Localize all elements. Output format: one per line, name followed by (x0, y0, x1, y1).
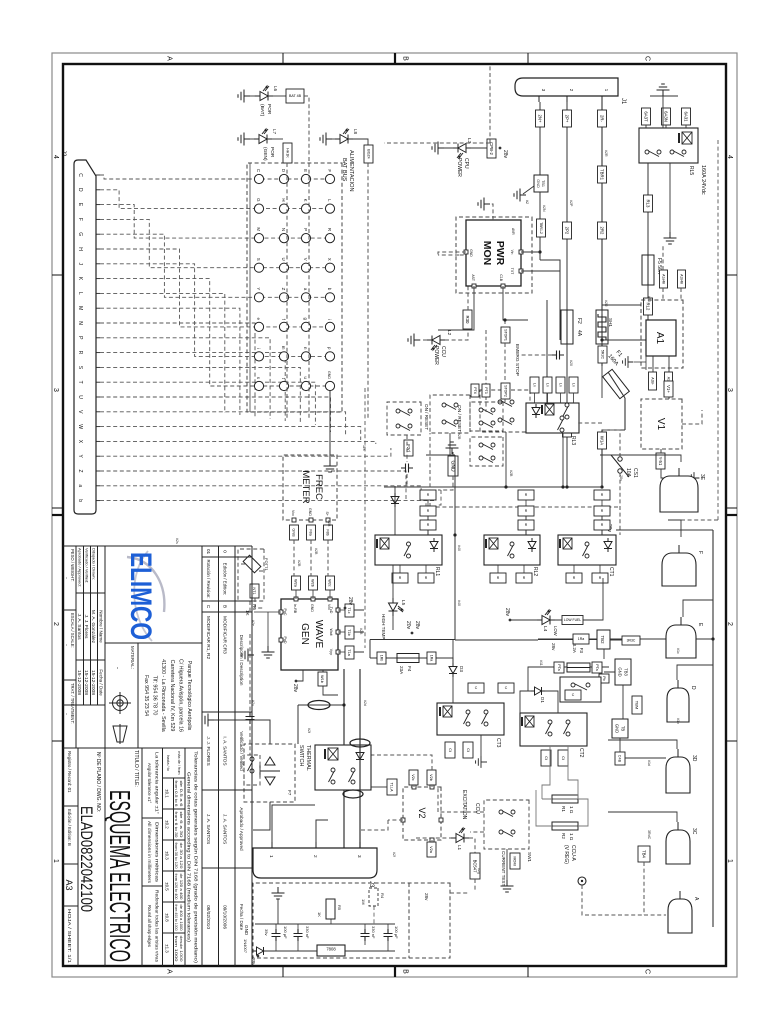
wire L1 up (469, 838, 475, 853)
svg-text:C: C (644, 969, 651, 974)
connector 3E pin (678, 468, 680, 476)
svg-text:U: U (77, 395, 83, 399)
capacitor 100uF b (384, 929, 393, 941)
svg-text:de 0.5 a 6: de 0.5 a 6 (179, 781, 183, 807)
relay CT1 box (558, 535, 616, 565)
svg-text:C4B: C4B (618, 755, 622, 763)
svg-text:GEN: GEN (299, 623, 310, 645)
svg-text:Ct: Ct (561, 756, 565, 760)
wire CT1 left (601, 500, 603, 535)
ground emerg (446, 442, 459, 454)
svg-text:#40: #40 (457, 545, 461, 551)
wire WG left stubs (296, 590, 330, 599)
relay CT3 contact2 (464, 710, 471, 726)
terminal V (301, 263, 310, 272)
svg-text:GND: GND (536, 179, 540, 188)
wire V2 to power (360, 820, 388, 830)
wire shell 3E feed (600, 455, 681, 462)
diode RL4 (356, 749, 364, 763)
wire SW1 down (470, 831, 484, 833)
wire TB3 link (604, 649, 615, 672)
module V2 pin (430, 785, 434, 789)
svg-text:#2t: #2t (307, 728, 311, 733)
wire J2 pin N bundle (100, 323, 255, 417)
connector J2 pin W (96, 426, 100, 428)
svg-text:Tlf: 954 36 78 70: Tlf: 954 36 78 70 (152, 676, 158, 716)
svg-text:2: 2 (52, 622, 59, 626)
svg-text:ELIMCO: ELIMCO (124, 552, 157, 640)
resistor box RL2 right (490, 573, 506, 583)
svg-text:hasta / to: hasta / to (166, 755, 170, 771)
svg-text:V2: V2 (417, 807, 427, 818)
LED L3 (453, 144, 471, 159)
wire J2 pin Z bundle (100, 471, 406, 500)
relay RL3 contact 2 (558, 416, 565, 432)
wire J2 pin U bundle (100, 397, 331, 432)
terminal block ALIMENTACION BAT BUS box (247, 163, 342, 412)
wire shell 3D feed (608, 740, 677, 749)
connector J2 pin R (96, 352, 100, 354)
contact CN1 (442, 403, 458, 410)
svg-text:S+: S+ (325, 512, 329, 517)
label box A1a48 (660, 270, 668, 288)
svg-text:3RdC: 3RdC (647, 830, 651, 840)
terminal C (254, 174, 263, 183)
resistor box RL1 right (418, 573, 434, 583)
label box Y-51 (656, 453, 665, 469)
svg-text:i: i (256, 348, 261, 349)
ground V1 (689, 472, 700, 484)
svg-text:RL2: RL2 (645, 303, 650, 311)
svg-text:E: E (303, 169, 308, 172)
terminal Y (254, 293, 263, 302)
svg-text:from 6 to 30: from 6 to 30 (174, 812, 178, 838)
svg-text:28v: 28v (619, 475, 623, 481)
label box V2c (409, 770, 418, 785)
wire F3 in (602, 640, 622, 667)
LED L8 (335, 129, 353, 144)
label box R30 (463, 310, 472, 329)
switch group CN2 dashed box (387, 402, 421, 435)
wire RL1 right (399, 565, 401, 573)
breaker CS1 (611, 455, 629, 477)
label box STOP2 (501, 383, 510, 399)
label box T1b (345, 626, 354, 639)
connector 3D pin (677, 749, 679, 757)
terminal n (301, 352, 310, 361)
svg-text:G: G (256, 198, 261, 202)
svg-text:RL3: RL3 (645, 200, 650, 208)
wire RL2 left (525, 500, 527, 535)
svg-text:#2g: #2g (477, 868, 481, 874)
svg-text:1M: 1M (361, 899, 366, 905)
label box CPB-2 (487, 139, 496, 158)
wire drop x639 (610, 638, 713, 640)
svg-text:H: H (281, 198, 286, 201)
svg-text:TBR1: TBR1 (599, 169, 604, 181)
junction (538, 250, 541, 253)
wire L6 dashed2 (308, 163, 310, 420)
svg-text:Vin: Vin (510, 250, 514, 255)
wire bundle to relay 2 (426, 490, 437, 512)
wire L5 (392, 565, 394, 598)
resistor box CT right (541, 750, 551, 766)
switch group contacts A dashed box (470, 402, 503, 431)
svg-text:-: - (114, 667, 120, 669)
ground CT3 (476, 756, 487, 768)
wire cap emerg (518, 354, 552, 356)
LED L5 (389, 598, 404, 616)
wire J2 pin b bundle (100, 499, 436, 502)
label box MOM (510, 853, 520, 869)
wire L1 to PSU (474, 879, 476, 891)
svg-text:1N4007: 1N4007 (243, 939, 248, 954)
label box 2P2 (563, 222, 572, 239)
svg-text:LOW FUEL: LOW FUEL (564, 618, 581, 622)
wire shell D feed (677, 665, 713, 680)
wire dashed v3 (438, 254, 459, 256)
wire J2 pin P bundle (100, 338, 270, 419)
connector 3E shell (660, 476, 698, 512)
svg-text:Descripción / Description: Descripción / Description (239, 635, 244, 686)
relay RL3 box (526, 403, 579, 433)
relay RL2 contact (508, 542, 515, 558)
terminal L (325, 204, 334, 213)
wire lbox-RL5 (645, 125, 647, 128)
svg-text:PWR: PWR (494, 241, 506, 266)
sensor dashed box (244, 755, 260, 785)
svg-text:1: 1 (269, 855, 274, 858)
label box 2R2 (598, 222, 607, 239)
wire RL3 out (562, 433, 564, 487)
svg-text:Tolerancias de cotas generales: Tolerancias de cotas generales según DIN… (194, 751, 199, 964)
module WAVE GEN pin PgC (279, 610, 283, 614)
shunt SH1 (598, 314, 606, 340)
label box NT1 (250, 584, 259, 598)
svg-text:Aprobado / Approved: Aprobado / Approved (239, 807, 244, 851)
label box T1c (345, 604, 354, 617)
wire CN out (426, 433, 455, 455)
label box BAT 4B (286, 89, 304, 103)
svg-text:La tolerancia angular ±1°: La tolerancia angular ±1° (155, 752, 160, 814)
svg-text:BAT 4B: BAT 4B (289, 94, 302, 98)
connector J2 pin L (96, 292, 100, 294)
ground thermal (202, 714, 214, 727)
capacitor emerg (552, 351, 564, 360)
wire emerg chain2 (485, 330, 487, 412)
svg-text:W1A: W1A (599, 436, 604, 445)
svg-text:2P+: 2P+ (564, 115, 569, 123)
module WAVE GEN pin In-RB (294, 597, 298, 601)
svg-text:TBR1-2: TBR1-2 (539, 222, 543, 234)
svg-text:3: 3 (52, 388, 59, 392)
svg-text:RL3: RL3 (570, 436, 576, 445)
wire L7 b (272, 138, 283, 140)
svg-text:Z: Z (281, 288, 286, 291)
svg-text:Edición / Edition:: Edición / Edition: (223, 563, 228, 596)
svg-text:28v: 28v (347, 597, 353, 606)
wire A1 to V1 (668, 390, 670, 399)
terminal N (279, 234, 288, 243)
wire J2 pin R bundle (100, 353, 285, 421)
terminal K (301, 204, 310, 213)
module PWR MON pin GND (464, 250, 468, 254)
wire PSU rail A (255, 923, 395, 925)
svg-text:5R2C: 5R2C (600, 350, 604, 360)
junction (503, 318, 506, 321)
label box 1Ra (427, 652, 436, 664)
wire PWRMON top pin2 (521, 271, 560, 340)
svg-text:m: m (281, 346, 286, 350)
wire J1 pin1 bus (601, 102, 603, 310)
svg-text:CPU: CPU (463, 158, 469, 169)
svg-text:CURRENT TEST: CURRENT TEST (501, 851, 506, 887)
wire R1R2 top grey (578, 799, 588, 826)
wire J2 pin H bundle (100, 249, 334, 327)
wire TB1 out (539, 192, 541, 219)
label box 2R- (598, 110, 607, 127)
svg-text:de 30 a 120: de 30 a 120 (179, 843, 183, 869)
module PWR MON dashed box (456, 217, 532, 293)
svg-text:TB4: TB4 (642, 850, 647, 858)
wire PWRMON right1 (503, 286, 528, 320)
module WAVE GEN pin Vcc (328, 597, 332, 601)
wire grid internal (249, 163, 251, 412)
svg-text:M: M (77, 306, 83, 310)
svg-text:100 µF: 100 µF (394, 926, 399, 939)
CT coil T2 (350, 739, 370, 747)
module V1 dashed box (641, 399, 682, 449)
label box W1b (318, 672, 327, 686)
svg-text:PTa: PTa (557, 664, 561, 670)
ground SW1 (501, 880, 514, 892)
svg-text:Pb: Pb (602, 676, 606, 680)
diode CT1 (604, 538, 612, 552)
label box 3R3C (622, 636, 640, 645)
LED L1 (451, 828, 469, 843)
wire V2 stubs (414, 785, 432, 842)
wire CS1 right (619, 473, 621, 535)
junction (711, 637, 714, 640)
svg-text:T1a: T1a (347, 649, 351, 656)
wire shell 3C feed (608, 812, 677, 822)
wire L7 dashed (286, 163, 288, 420)
svg-text:35v: 35v (264, 929, 269, 935)
svg-text:23A: 23A (399, 666, 404, 675)
wire to RL3 (546, 300, 548, 403)
LED L6 (255, 86, 273, 101)
wire A1a48 link (662, 288, 664, 300)
switch group ON/RESET dashed box (480, 390, 530, 432)
svg-text:Ct: Ct (448, 748, 452, 752)
wire J2 pin G bundle (100, 234, 334, 297)
svg-text:4: 4 (726, 155, 733, 159)
svg-text:from 1000: from 1000 (174, 936, 178, 962)
svg-text:V2c: V2c (411, 774, 415, 781)
relay CT2 coil (522, 716, 534, 727)
label box TBR1-2 (537, 219, 546, 237)
svg-text:3E: 3E (699, 474, 705, 481)
svg-text:#2N: #2N (542, 205, 546, 212)
label box TB4 (638, 846, 650, 862)
svg-text:In-RB: In-RB (293, 604, 297, 614)
svg-text:±0.5: ±0.5 (165, 882, 170, 891)
svg-text:Ln: Ln (571, 383, 575, 387)
svg-text:1K: 1K (317, 912, 322, 917)
svg-text:D: D (77, 188, 83, 192)
switch group CN dashed box (430, 395, 470, 433)
module FREC METER pin GND (309, 518, 313, 522)
contact CN3 (396, 409, 412, 416)
label box RL3 feed (530, 377, 539, 393)
label box GND (448, 456, 458, 476)
module PWR MON pin C1B (501, 284, 505, 288)
svg-text:28v: 28v (504, 608, 510, 617)
module PWR MON box (466, 220, 521, 286)
resistor box RL1 right (392, 573, 408, 583)
diode RL2 (528, 538, 536, 552)
relay RL1 box (375, 535, 442, 565)
wire CT3 gnd (481, 735, 487, 762)
relay RL3 contact (563, 403, 570, 419)
svg-text:METER: METER (300, 470, 311, 503)
svg-text:#2P: #2P (569, 200, 573, 207)
svg-text:1 Ω: 1 Ω (569, 833, 574, 841)
svg-text:Verificado / Verified: Verificado / Verified (239, 731, 244, 771)
svg-text:TxD: TxD (329, 607, 333, 614)
wire L4 in (510, 619, 537, 621)
connector J2 pin G (96, 233, 100, 235)
svg-text:V2a: V2a (429, 846, 433, 854)
svg-text:MATERIAL:: MATERIAL: (130, 646, 135, 669)
terminal block TB1 GND (534, 175, 548, 192)
resistor box CT right (463, 742, 473, 758)
module FREC METER pin S+ (326, 518, 330, 522)
wire CPU gnd (438, 147, 453, 149)
wire RL2 right (523, 565, 525, 573)
connector E pin (680, 617, 682, 625)
svg-text:#2f: #2f (392, 852, 396, 857)
svg-text:Ln: Ln (558, 383, 562, 387)
capacitor 330nF b (361, 929, 370, 941)
wire gnd stub (452, 452, 454, 456)
wire CT1 right (599, 565, 601, 573)
svg-text:GND: GND (615, 724, 620, 733)
module V2 dashed box (403, 787, 441, 840)
svg-text:CCU: CCU (474, 803, 480, 814)
connector CCU-A (V REG) (578, 877, 586, 885)
wire PSU feed (450, 892, 468, 894)
label box RL3 (644, 195, 653, 212)
wire R4 link (373, 906, 375, 924)
terminal H (279, 204, 288, 213)
ground L6 (238, 90, 250, 103)
wire CN2 out (406, 435, 408, 486)
svg-text:Carretera Nacional IV, Km 529: Carretera Nacional IV, Km 529 (169, 660, 175, 732)
wire L8 dashed (367, 163, 369, 420)
relay CT1 contact (583, 542, 590, 558)
capacitor 330nF (294, 929, 303, 941)
relay RL5 contact (670, 150, 686, 157)
svg-text:FOTT1: FOTT1 (264, 558, 269, 571)
wire F2 to bus (566, 344, 568, 487)
svg-text:L7: L7 (272, 129, 277, 135)
wire RL3 feed (547, 393, 549, 403)
relay CT3 coil (440, 706, 452, 717)
projection symbol (109, 692, 131, 744)
svg-text:#2R: #2R (604, 300, 608, 307)
wire power A (359, 669, 361, 848)
wire RL2 right (497, 565, 499, 573)
wire ON out (505, 432, 507, 487)
fuse F1 (596, 310, 608, 344)
svg-text:1Ra: 1Ra (429, 655, 433, 662)
svg-text:RL2: RL2 (532, 567, 538, 576)
svg-text:J2: J2 (60, 150, 66, 157)
svg-text:3: 3 (726, 388, 733, 392)
resistor box CT1 (594, 506, 610, 516)
CT coil T3 (343, 790, 363, 798)
wire shell E feed (683, 600, 713, 617)
svg-text:ALIMENTACION: ALIMENTACION (348, 150, 354, 192)
wire dashed v2 (430, 433, 618, 507)
capacitor 100uF 35v (272, 929, 281, 941)
label box T1a (345, 646, 354, 659)
label box C4B (615, 752, 625, 765)
ground RL5 (657, 84, 670, 96)
label box 5R2C (598, 346, 607, 363)
relay RL4 coil (325, 748, 338, 760)
svg-text:7808: 7808 (326, 947, 336, 952)
svg-text:CT2: CT2 (578, 748, 584, 758)
module V2 pin (439, 818, 443, 822)
connector F shell (662, 553, 696, 586)
label box PT4 (471, 384, 479, 397)
svg-text:R: R (77, 351, 83, 355)
terminal U (279, 263, 288, 272)
svg-text:V: V (303, 258, 308, 261)
svg-text:TB1: TB1 (541, 180, 545, 187)
svg-text:Nombre / Name: Nombre / Name (99, 610, 104, 643)
module FREC METER dashed box (283, 455, 337, 520)
connector F pin (678, 545, 680, 553)
svg-text:#40: #40 (457, 600, 461, 606)
svg-text:GND: GND (449, 460, 455, 472)
wire GND terminal (329, 391, 331, 460)
label box LOW FUEL (562, 616, 583, 625)
connector J2 pin V (96, 411, 100, 413)
svg-text:Y: Y (256, 287, 261, 290)
svg-text:THERMAL: THERMAL (305, 745, 311, 771)
terminal block TB2 (597, 630, 610, 649)
svg-text:MOM: MOM (513, 856, 517, 865)
svg-text:6A3N: 6A3N (663, 111, 668, 122)
terminal f (279, 322, 288, 331)
resistor R4 1M (369, 888, 378, 906)
wire J1 pin2 (566, 102, 568, 310)
connector J2 pin J (96, 263, 100, 265)
terminal GND (325, 381, 334, 390)
svg-text:CCU-A: CCU-A (570, 845, 576, 861)
wire FOTT1 stub (238, 564, 264, 612)
module WAVE GEN pin PgD (279, 638, 283, 642)
wire L5b (392, 616, 394, 630)
svg-text:PgC: PgC (283, 609, 287, 616)
wire FOTT1 link (255, 598, 264, 608)
wire J2 pin D bundle (100, 190, 334, 209)
junction (342, 703, 345, 706)
wire FM-WG 2 (310, 540, 312, 576)
